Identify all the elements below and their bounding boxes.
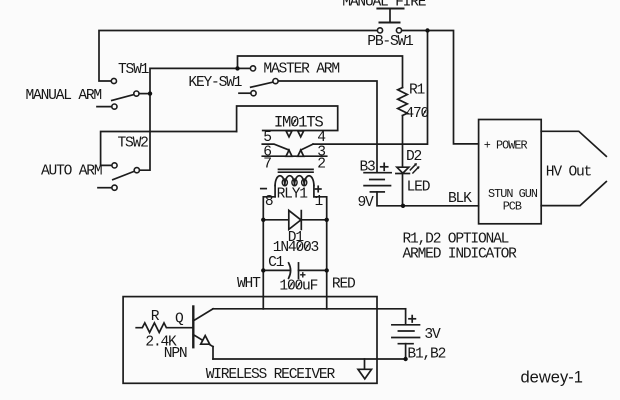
svg-text:RLY1: RLY1 xyxy=(277,186,309,202)
svg-text:3V: 3V xyxy=(424,327,441,343)
svg-text:7: 7 xyxy=(263,156,271,172)
svg-text:B3: B3 xyxy=(360,159,376,175)
svg-text:9V: 9V xyxy=(358,195,375,211)
svg-text:1N4003: 1N4003 xyxy=(273,240,319,256)
svg-text:MANUAL FIRE: MANUAL FIRE xyxy=(342,0,425,11)
svg-text:R1,D2 OPTIONAL: R1,D2 OPTIONAL xyxy=(403,232,509,248)
svg-text:+ POWER: + POWER xyxy=(484,139,528,153)
svg-text:RED: RED xyxy=(332,276,356,292)
svg-text:MANUAL ARM: MANUAL ARM xyxy=(26,88,102,104)
svg-text:WHT: WHT xyxy=(237,276,261,292)
svg-text:LED: LED xyxy=(407,180,431,196)
svg-text:KEY-SW1: KEY-SW1 xyxy=(188,75,242,91)
svg-text:B1,B2: B1,B2 xyxy=(407,347,445,363)
svg-text:IM01TS: IM01TS xyxy=(274,114,323,132)
svg-text:dewey-1: dewey-1 xyxy=(521,368,583,386)
svg-text:NPN: NPN xyxy=(164,346,187,362)
svg-text:HV Out: HV Out xyxy=(546,165,592,181)
svg-text:TSW2: TSW2 xyxy=(118,135,149,151)
svg-text:2: 2 xyxy=(317,156,325,172)
svg-text:R1: R1 xyxy=(409,83,426,99)
svg-text:WIRELESS RECEIVER: WIRELESS RECEIVER xyxy=(206,367,336,383)
svg-text:C1: C1 xyxy=(268,255,285,271)
svg-text:470: 470 xyxy=(405,106,428,122)
svg-text:PB-SW1: PB-SW1 xyxy=(367,34,414,50)
svg-text:TSW1: TSW1 xyxy=(118,62,150,78)
svg-text:PCB: PCB xyxy=(503,200,522,214)
svg-text:100uF: 100uF xyxy=(279,279,317,295)
svg-text:ARMED INDICATOR: ARMED INDICATOR xyxy=(403,246,518,262)
svg-text:D2: D2 xyxy=(406,149,422,165)
svg-text:AUTO ARM: AUTO ARM xyxy=(41,164,102,180)
svg-text:8: 8 xyxy=(265,194,273,210)
svg-text:MASTER ARM: MASTER ARM xyxy=(263,62,339,78)
svg-text:BLK: BLK xyxy=(448,191,472,207)
